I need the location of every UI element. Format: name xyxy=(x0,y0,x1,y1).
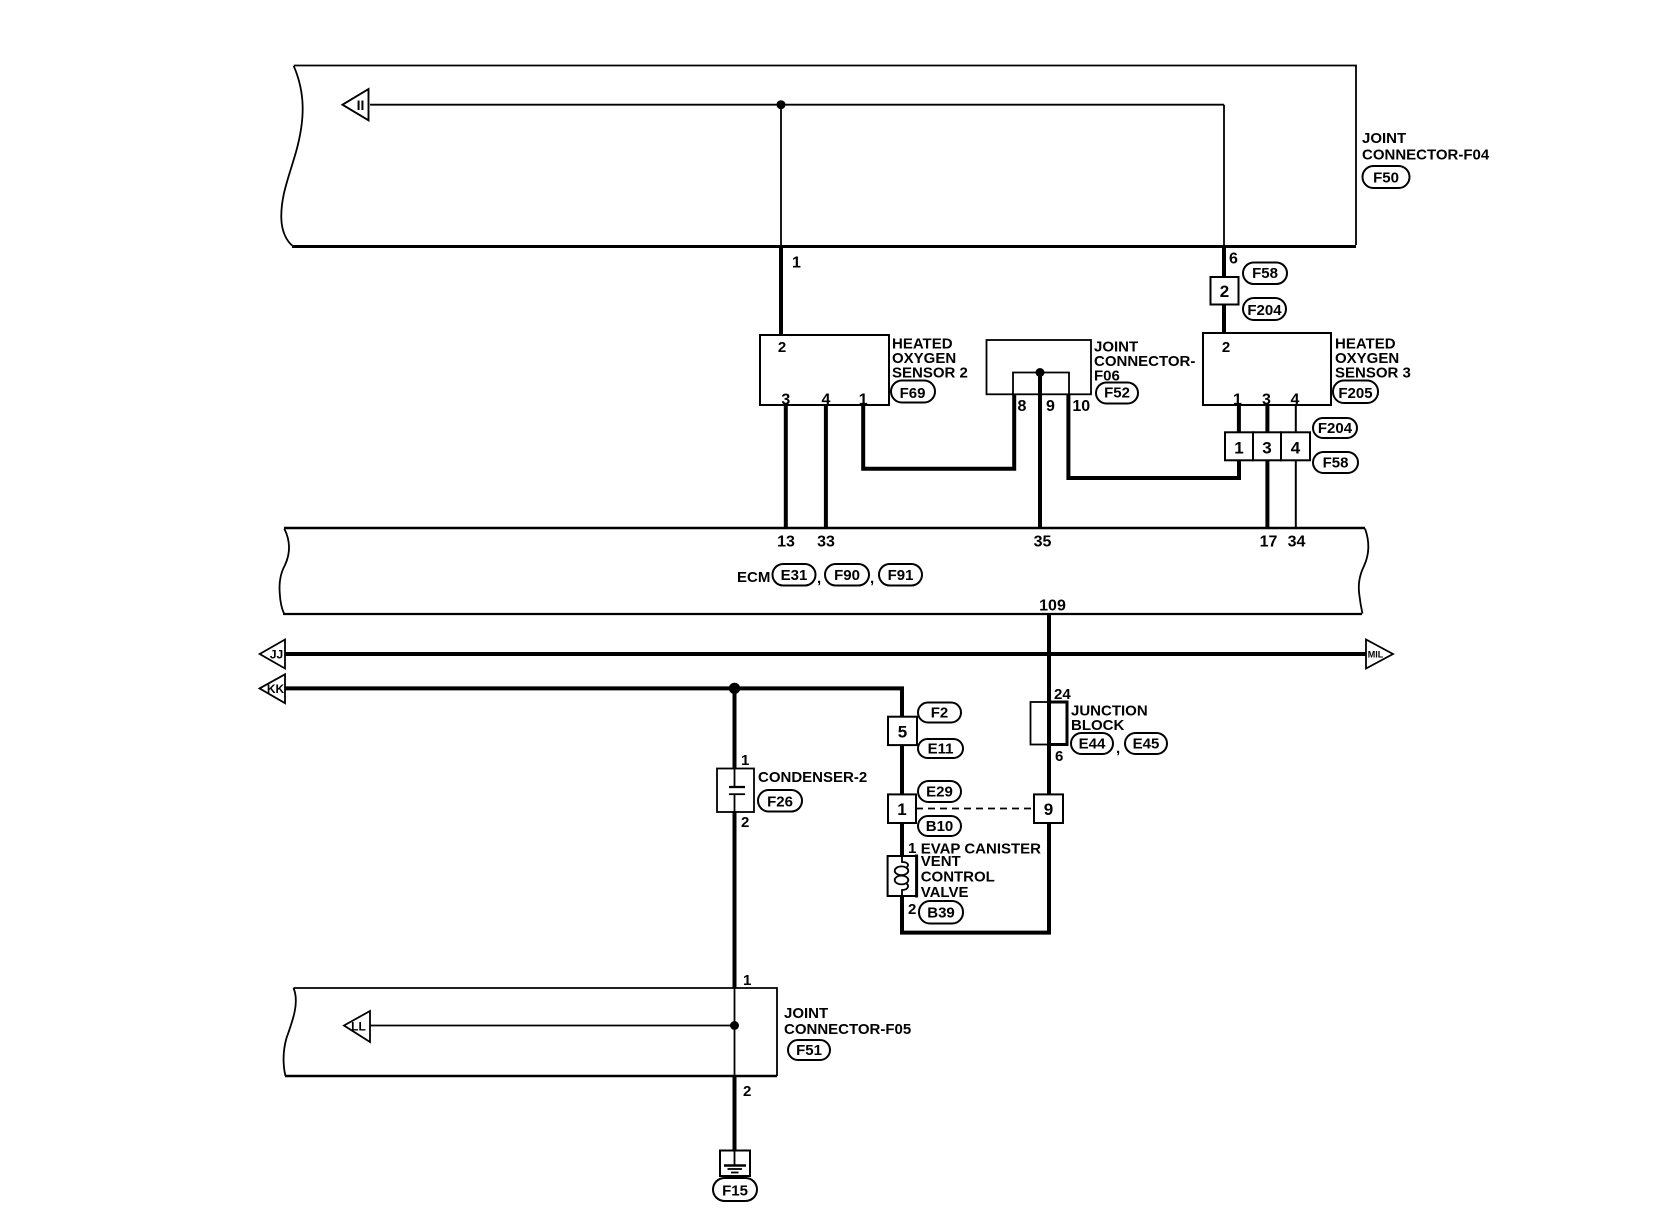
svg-text:9: 9 xyxy=(1044,800,1053,819)
svg-text:8: 8 xyxy=(1018,398,1027,415)
svg-text:JOINT: JOINT xyxy=(784,1005,828,1022)
svg-text:SENSOR 3: SENSOR 3 xyxy=(1335,365,1411,382)
svg-text:F50: F50 xyxy=(1373,170,1399,187)
svg-text:34: 34 xyxy=(1288,534,1306,551)
svg-text:109: 109 xyxy=(1039,598,1066,615)
svg-text:F26: F26 xyxy=(767,794,793,811)
svg-text:VALVE: VALVE xyxy=(921,884,969,901)
svg-text:CONNECTOR-F05: CONNECTOR-F05 xyxy=(784,1021,911,1038)
svg-text:MIL: MIL xyxy=(1368,650,1384,660)
svg-text:3: 3 xyxy=(781,392,790,409)
svg-text:17: 17 xyxy=(1260,534,1278,551)
svg-text:13: 13 xyxy=(777,534,795,551)
svg-text:6: 6 xyxy=(1229,251,1238,268)
svg-text:6: 6 xyxy=(1055,748,1063,765)
svg-text:3: 3 xyxy=(1262,392,1271,409)
svg-text:E31: E31 xyxy=(781,567,808,584)
svg-text:,: , xyxy=(817,570,821,587)
svg-text:SENSOR 2: SENSOR 2 xyxy=(892,365,968,382)
svg-text:E44: E44 xyxy=(1079,736,1106,753)
svg-text:F06: F06 xyxy=(1094,368,1120,385)
svg-text:1: 1 xyxy=(1233,392,1242,409)
svg-text:F90: F90 xyxy=(834,567,860,584)
svg-text:1: 1 xyxy=(908,840,916,857)
svg-text:E11: E11 xyxy=(928,741,954,758)
svg-text:2: 2 xyxy=(908,901,916,918)
svg-text:KK: KK xyxy=(267,682,285,696)
svg-text:4: 4 xyxy=(821,392,830,409)
svg-text:F204: F204 xyxy=(1247,302,1282,319)
svg-text:4: 4 xyxy=(1291,392,1300,409)
svg-text:1: 1 xyxy=(792,255,801,272)
svg-text:F2: F2 xyxy=(931,705,949,722)
svg-text:E45: E45 xyxy=(1133,736,1160,753)
svg-text:F204: F204 xyxy=(1318,420,1353,437)
svg-text:3: 3 xyxy=(1262,439,1271,458)
svg-text:F52: F52 xyxy=(1104,385,1130,402)
svg-text:2: 2 xyxy=(1220,282,1229,301)
svg-text:ECM: ECM xyxy=(737,569,770,586)
svg-text:1: 1 xyxy=(741,752,749,769)
svg-text:BLOCK: BLOCK xyxy=(1071,717,1124,734)
svg-text:2: 2 xyxy=(743,1083,751,1100)
svg-text:5: 5 xyxy=(898,723,907,742)
svg-text:2: 2 xyxy=(741,814,749,831)
svg-text:,: , xyxy=(870,570,874,587)
svg-text:24: 24 xyxy=(1054,686,1071,703)
svg-text:F205: F205 xyxy=(1338,385,1372,402)
svg-text:LL: LL xyxy=(351,1020,366,1034)
svg-text:II: II xyxy=(357,97,365,113)
svg-text:B10: B10 xyxy=(926,818,954,835)
svg-text:35: 35 xyxy=(1034,534,1052,551)
svg-text:33: 33 xyxy=(817,534,835,551)
svg-text:JJ: JJ xyxy=(270,648,283,662)
svg-text:E29: E29 xyxy=(926,784,953,801)
svg-text:B39: B39 xyxy=(927,905,955,922)
svg-text:JOINT: JOINT xyxy=(1362,130,1406,147)
svg-text:10: 10 xyxy=(1072,398,1090,415)
svg-text:CONDENSER-2: CONDENSER-2 xyxy=(758,769,867,786)
svg-text:,: , xyxy=(1116,740,1120,757)
svg-text:4: 4 xyxy=(1291,439,1301,458)
svg-text:2: 2 xyxy=(1222,339,1230,356)
svg-text:F58: F58 xyxy=(1252,265,1278,282)
svg-text:F58: F58 xyxy=(1323,455,1349,472)
svg-text:F69: F69 xyxy=(900,385,926,402)
svg-text:1: 1 xyxy=(1234,439,1243,458)
svg-text:1: 1 xyxy=(859,392,868,409)
svg-text:F15: F15 xyxy=(722,1183,748,1200)
svg-text:F91: F91 xyxy=(888,567,914,584)
svg-text:CONNECTOR-F04: CONNECTOR-F04 xyxy=(1362,147,1490,164)
svg-text:2: 2 xyxy=(778,339,786,356)
svg-text:F51: F51 xyxy=(796,1042,822,1059)
svg-text:1: 1 xyxy=(897,800,906,819)
svg-text:9: 9 xyxy=(1046,398,1055,415)
svg-text:1: 1 xyxy=(743,972,751,989)
